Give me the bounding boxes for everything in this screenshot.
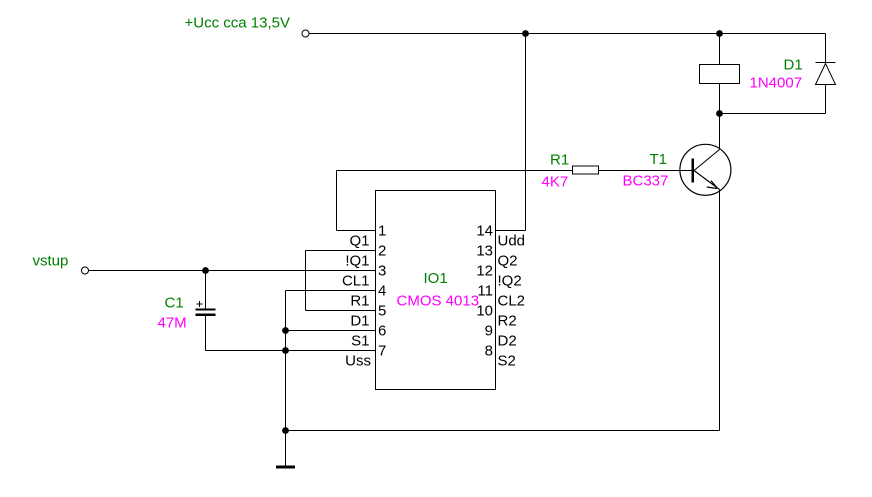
wire pin 4 stub xyxy=(286,290,376,292)
svg-text:8: 8 xyxy=(485,343,493,360)
svg-text:C1: C1 xyxy=(165,295,184,312)
svg-text:T1: T1 xyxy=(650,151,668,168)
ground xyxy=(276,466,295,469)
svg-text:D2: D2 xyxy=(498,333,517,350)
terminal +Ucc xyxy=(302,30,309,37)
node pin6 junction xyxy=(282,327,289,334)
svg-text:10: 10 xyxy=(476,303,493,320)
svg-text:R1: R1 xyxy=(350,293,369,310)
svg-text:47M: 47M xyxy=(158,315,187,332)
wire diode top xyxy=(825,34,827,63)
svg-text:+Ucc cca 13,5V: +Ucc cca 13,5V xyxy=(185,15,290,32)
svg-text:BC337: BC337 xyxy=(623,173,669,190)
svg-text:3: 3 xyxy=(378,263,386,280)
wire pin 2 to pin 5 vertical xyxy=(305,251,307,311)
svg-text:4: 4 xyxy=(378,283,386,300)
svg-text:13: 13 xyxy=(476,243,493,260)
svg-text:IO1: IO1 xyxy=(424,270,448,287)
svg-text:Q2: Q2 xyxy=(498,253,518,270)
svg-text:D1: D1 xyxy=(784,57,803,74)
svg-text:!Q1: !Q1 xyxy=(345,253,369,270)
svg-text:1N4007: 1N4007 xyxy=(750,75,803,92)
wire relay top xyxy=(719,34,721,65)
node vstup / C1 junction xyxy=(202,267,209,274)
wire Q1 loop vertical xyxy=(336,171,338,231)
diode D1 xyxy=(816,63,836,85)
wire pin 1 stub xyxy=(337,230,376,232)
wire top supply rail xyxy=(310,33,826,35)
transistor T1 xyxy=(680,144,731,195)
wire pin 7 stub xyxy=(286,350,376,352)
svg-text:R2: R2 xyxy=(498,313,517,330)
wire emitter vertical xyxy=(719,190,721,431)
wire vstup to pin 3 xyxy=(89,270,376,272)
wire Q1 to resistor R1 xyxy=(337,170,573,172)
wire collector vertical xyxy=(719,114,721,150)
svg-text:6: 6 xyxy=(378,323,386,340)
svg-text:14: 14 xyxy=(476,223,493,240)
node pin7 junction xyxy=(282,347,289,354)
node ground junction xyxy=(282,427,289,434)
svg-text:Uss: Uss xyxy=(345,353,371,370)
op-amp? no: IC IO1 body xyxy=(376,191,496,390)
svg-text:CL2: CL2 xyxy=(498,293,526,310)
svg-text:1: 1 xyxy=(378,223,386,240)
svg-text:2: 2 xyxy=(378,243,386,260)
wire diode to collector node xyxy=(720,113,826,115)
wire Udd net vertical to pin 14 xyxy=(525,34,527,231)
wire C1 bottom lead xyxy=(205,316,207,351)
capacitor C1 xyxy=(196,301,216,315)
svg-text:Q1: Q1 xyxy=(349,233,369,250)
wire pin 5 stub xyxy=(306,310,376,312)
svg-text:CMOS 4013: CMOS 4013 xyxy=(397,293,480,310)
svg-text:!Q2: !Q2 xyxy=(498,273,522,290)
svg-text:S1: S1 xyxy=(351,333,369,350)
node +Ucc junction to IC xyxy=(522,30,529,37)
node +Ucc junction to relay xyxy=(716,30,723,37)
svg-text:Udd: Udd xyxy=(498,233,526,250)
svg-text:12: 12 xyxy=(476,263,493,280)
svg-text:4K7: 4K7 xyxy=(542,174,569,191)
wire bottom ground rail xyxy=(286,430,720,432)
svg-text:11: 11 xyxy=(477,283,493,300)
svg-text:D1: D1 xyxy=(350,313,369,330)
wire C1 top lead xyxy=(205,271,207,309)
wire C1 to ground column xyxy=(206,350,286,352)
node collector junction xyxy=(716,110,723,117)
wire relay bottom xyxy=(719,84,721,114)
resistor R1 xyxy=(573,166,599,174)
wire pin 14 stub xyxy=(496,230,526,232)
wire R1 to base xyxy=(599,170,692,172)
svg-text:S2: S2 xyxy=(498,353,516,370)
wire ground column vertical xyxy=(285,291,287,431)
wire pin 2 stub xyxy=(306,250,376,252)
wire diode bottom xyxy=(825,85,827,114)
svg-text:vstup: vstup xyxy=(33,253,69,270)
svg-text:R1: R1 xyxy=(550,152,569,169)
wire ground stem xyxy=(285,431,287,467)
svg-text:CL1: CL1 xyxy=(342,273,370,290)
relay coil xyxy=(700,65,740,84)
svg-text:7: 7 xyxy=(378,343,386,360)
terminal vstup xyxy=(82,267,89,274)
wire pin 6 stub xyxy=(286,330,376,332)
svg-text:5: 5 xyxy=(378,303,386,320)
svg-text:9: 9 xyxy=(485,323,493,340)
